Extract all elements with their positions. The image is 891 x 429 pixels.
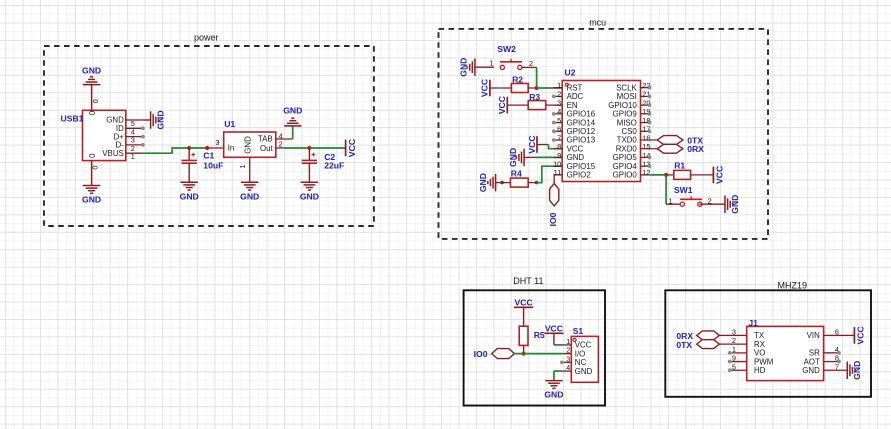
- pin dot: [648, 95, 652, 99]
- svg-text:R1: R1: [674, 161, 685, 171]
- svg-text:RST: RST: [567, 83, 583, 92]
- svg-text:VCC: VCC: [545, 324, 563, 334]
- svg-text:mcu: mcu: [589, 17, 606, 27]
- svg-text:VIN: VIN: [807, 331, 820, 340]
- svg-text:GND: GND: [544, 389, 563, 399]
- wire: [528, 87, 536, 89]
- svg-text:IO0: IO0: [474, 349, 488, 359]
- ground: [725, 195, 740, 214]
- pin number 0: [90, 166, 99, 170]
- pin dot: [648, 129, 652, 133]
- svg-text:IO0: IO0: [548, 212, 558, 226]
- section label MHZ19: [778, 280, 808, 290]
- wire: [91, 161, 93, 186]
- value 10uF: [203, 160, 223, 170]
- svg-text:R5: R5: [534, 330, 545, 340]
- svg-text:9: 9: [557, 151, 561, 160]
- svg-text:R2: R2: [512, 75, 523, 85]
- pin dot D-: [141, 143, 145, 147]
- section box mcu: [439, 29, 769, 239]
- section label power: [194, 32, 219, 42]
- capacitor C2: [300, 148, 319, 201]
- wire: [514, 353, 523, 355]
- wire: [554, 370, 563, 372]
- svg-text:GND: GND: [567, 153, 585, 162]
- svg-text:DHT 11: DHT 11: [513, 276, 543, 286]
- connector J1: [719, 326, 854, 380]
- svg-text:VCC: VCC: [715, 166, 725, 184]
- svg-text:VCC: VCC: [515, 298, 533, 308]
- svg-text:U1: U1: [224, 119, 235, 129]
- resistor R2: [511, 84, 528, 93]
- pin number 1: [669, 197, 673, 206]
- power flag VCC: [346, 139, 357, 157]
- wire: [292, 126, 294, 139]
- wire: [91, 85, 93, 111]
- wire: [284, 147, 310, 149]
- power flag VCC: [854, 326, 865, 344]
- svg-text:1: 1: [566, 337, 570, 346]
- pin number 3: [215, 138, 219, 147]
- svg-text:11: 11: [554, 168, 562, 177]
- svg-text:10uF: 10uF: [203, 160, 223, 170]
- net flag 0TX: [697, 340, 720, 349]
- svg-text:TXD0: TXD0: [617, 136, 638, 145]
- pin number 0: [91, 99, 100, 103]
- net flag IO0: [550, 184, 559, 206]
- wire: [536, 67, 538, 88]
- ground: [283, 106, 302, 126]
- svg-text:MHZ19: MHZ19: [778, 280, 808, 290]
- svg-text:GPIO16: GPIO16: [567, 110, 596, 119]
- wire: [665, 175, 667, 204]
- label C2: [324, 152, 335, 162]
- svg-text:GND: GND: [156, 110, 166, 129]
- wire: [490, 87, 512, 89]
- svg-text:GPIO5: GPIO5: [613, 153, 638, 162]
- svg-text:RX: RX: [754, 340, 766, 349]
- svg-text:8: 8: [557, 142, 561, 151]
- svg-text:In: In: [228, 144, 235, 153]
- ground: [478, 173, 496, 192]
- svg-text:AOT: AOT: [804, 357, 820, 366]
- pin dot: [552, 112, 556, 116]
- wire: [553, 371, 555, 381]
- pin dot: [648, 86, 652, 90]
- svg-text:VBUS: VBUS: [102, 149, 124, 158]
- svg-text:GND: GND: [575, 367, 593, 376]
- svg-text:SCLK: SCLK: [616, 83, 637, 92]
- svg-text:GND: GND: [244, 136, 253, 154]
- wire: [699, 203, 725, 205]
- svg-text:5: 5: [557, 116, 561, 125]
- svg-text:VCC: VCC: [567, 144, 584, 153]
- pin number 2: [279, 140, 283, 149]
- svg-text:5: 5: [732, 362, 736, 371]
- wire: [535, 156, 562, 158]
- pin number 1: [490, 59, 494, 68]
- pin dot: [552, 95, 556, 99]
- svg-text:0: 0: [90, 166, 99, 170]
- svg-text:RXD0: RXD0: [616, 144, 638, 153]
- pin dot SR: [837, 351, 841, 355]
- wire: [309, 147, 345, 149]
- pin dot D+: [141, 135, 145, 139]
- svg-text:6: 6: [557, 125, 561, 134]
- svg-text:USB1: USB1: [61, 114, 84, 124]
- svg-text:3: 3: [215, 138, 219, 147]
- svg-text:GND: GND: [82, 195, 101, 205]
- svg-text:R4: R4: [511, 169, 522, 179]
- svg-text:VCC: VCC: [480, 79, 490, 97]
- svg-text:10: 10: [553, 159, 561, 168]
- net flag 0TX: [657, 136, 683, 145]
- switch SW1: [680, 196, 702, 206]
- section box DHT11: [464, 290, 605, 405]
- wire: [537, 87, 562, 89]
- svg-text:GND: GND: [508, 148, 518, 167]
- svg-text:SR: SR: [809, 349, 820, 358]
- label S1: [573, 326, 584, 336]
- net label 0TX: [687, 135, 703, 145]
- svg-text:3: 3: [566, 354, 570, 363]
- net label IO0: [548, 212, 558, 226]
- svg-text:C1: C1: [203, 150, 214, 160]
- ground: [151, 110, 166, 129]
- wire: [522, 66, 537, 68]
- label R5: [534, 330, 545, 340]
- section box power: [44, 46, 374, 226]
- svg-text:0: 0: [88, 153, 97, 158]
- svg-text:7: 7: [835, 362, 839, 371]
- wire: [528, 182, 536, 184]
- pin dot: [648, 112, 652, 116]
- svg-text:GPIO12: GPIO12: [567, 127, 596, 136]
- pin dot: [552, 138, 556, 142]
- svg-text:2: 2: [557, 90, 561, 99]
- ground: [82, 65, 101, 84]
- svg-text:9: 9: [732, 354, 736, 363]
- ground: [458, 58, 475, 77]
- svg-text:1: 1: [238, 164, 247, 168]
- label USB1: [61, 114, 84, 124]
- svg-text:J1: J1: [748, 318, 758, 328]
- svg-text:2: 2: [566, 346, 570, 355]
- pin dot: [648, 121, 652, 125]
- label C1: [203, 150, 214, 160]
- label R3: [529, 92, 540, 102]
- svg-text:1: 1: [490, 59, 494, 68]
- section label mcu: [589, 17, 606, 27]
- resistor R5: [519, 326, 528, 345]
- svg-text:GND: GND: [300, 191, 319, 201]
- svg-text:VO: VO: [754, 349, 765, 358]
- mcu U2: [553, 81, 657, 182]
- resistor R1: [674, 170, 691, 179]
- svg-text:GND: GND: [730, 195, 740, 214]
- pin number 2: [708, 197, 712, 206]
- svg-text:GND: GND: [82, 65, 101, 75]
- resistor R4: [511, 178, 529, 187]
- power flag VCC: [713, 166, 724, 184]
- regulator U1: [224, 132, 276, 182]
- wire: [691, 174, 714, 176]
- wire: [537, 144, 549, 146]
- svg-text:HD: HD: [754, 366, 766, 375]
- pin dot NC: [560, 360, 564, 364]
- ground: [508, 148, 524, 167]
- svg-text:3: 3: [732, 327, 736, 336]
- power flag VCC: [514, 298, 533, 308]
- junction: [522, 352, 526, 356]
- svg-text:GPIO4: GPIO4: [613, 162, 638, 171]
- svg-text:GPIO10: GPIO10: [608, 101, 637, 110]
- pin dot: [552, 121, 556, 125]
- svg-text:4: 4: [557, 107, 561, 116]
- svg-text:GPIO9: GPIO9: [613, 110, 638, 119]
- wire: [537, 166, 563, 182]
- wire: [189, 147, 207, 149]
- ground: [847, 361, 862, 380]
- wire: [553, 333, 555, 345]
- svg-text:GND: GND: [180, 191, 199, 201]
- svg-text:MOSI: MOSI: [617, 92, 637, 101]
- svg-text:TX: TX: [754, 331, 765, 340]
- net flag 0RX: [657, 144, 683, 153]
- svg-text:Out: Out: [260, 144, 274, 153]
- wire: [546, 104, 562, 106]
- power flag VCC: [480, 79, 490, 97]
- svg-text:GND: GND: [240, 191, 259, 201]
- wire: [502, 182, 510, 184]
- power flag VCC: [497, 96, 507, 114]
- svg-text:MISO: MISO: [617, 118, 637, 127]
- svg-text:GND: GND: [802, 366, 820, 375]
- resistor R3: [528, 101, 546, 110]
- svg-text:S1: S1: [573, 326, 584, 336]
- label R4: [511, 169, 522, 179]
- wire: [143, 119, 151, 121]
- wire: [143, 148, 189, 153]
- junction: [187, 146, 191, 150]
- junction: [535, 86, 539, 90]
- svg-text:GND: GND: [283, 106, 302, 116]
- power flag VCC: [544, 324, 563, 334]
- svg-text:VCC: VCC: [527, 135, 537, 153]
- svg-text:VCC: VCC: [856, 326, 866, 344]
- pin dot: [648, 156, 652, 160]
- pin number 4: [279, 131, 283, 140]
- svg-text:EN: EN: [567, 101, 578, 110]
- net flag IO0: [492, 349, 515, 359]
- svg-text:GPIO14: GPIO14: [567, 118, 596, 127]
- junction: [307, 146, 311, 150]
- net label 0RX: [687, 144, 704, 154]
- pin dot: [648, 164, 652, 168]
- capacitor C1: [180, 148, 199, 201]
- wire: [507, 104, 528, 106]
- svg-text:GPIO2: GPIO2: [567, 171, 591, 180]
- label U1: [224, 119, 235, 129]
- svg-text:TAB: TAB: [258, 135, 273, 144]
- label U2: [565, 68, 576, 78]
- svg-text:VCC: VCC: [575, 341, 592, 350]
- svg-text:3: 3: [557, 98, 561, 107]
- svg-text:VCC: VCC: [347, 139, 357, 157]
- wire: [554, 344, 563, 346]
- value 22uF: [324, 161, 344, 171]
- pin dot: [648, 103, 652, 107]
- pin number 2: [529, 59, 533, 68]
- wire: [276, 138, 293, 140]
- svg-text:I/O: I/O: [575, 349, 586, 358]
- wire: [524, 156, 535, 158]
- svg-text:1: 1: [131, 152, 135, 161]
- section label DHT11: [513, 276, 543, 286]
- USB connector USB1: [83, 110, 143, 161]
- ground: [544, 381, 563, 400]
- svg-text:GPIO13: GPIO13: [567, 136, 596, 145]
- junction: [500, 181, 504, 185]
- wire: [666, 174, 674, 176]
- svg-text:0: 0: [88, 110, 97, 115]
- svg-text:ADC: ADC: [567, 92, 584, 101]
- pin dot: [552, 129, 556, 133]
- net flag 0RX: [697, 331, 720, 340]
- label J1: [748, 318, 758, 328]
- wire: [523, 307, 525, 326]
- wire: [554, 175, 562, 184]
- svg-text:R3: R3: [529, 92, 540, 102]
- svg-text:1: 1: [732, 345, 736, 354]
- svg-text:6: 6: [835, 327, 839, 336]
- svg-text:16: 16: [642, 133, 650, 142]
- svg-text:VCC: VCC: [497, 96, 507, 114]
- svg-text:22uF: 22uF: [324, 161, 344, 171]
- svg-text:GPIO15: GPIO15: [567, 162, 596, 171]
- svg-text:GPIO0: GPIO0: [613, 171, 638, 180]
- svg-text:0: 0: [91, 99, 100, 103]
- svg-text:4: 4: [566, 363, 570, 372]
- power flag VCC: [527, 135, 537, 153]
- svg-text:15: 15: [642, 142, 650, 151]
- wire: [649, 174, 666, 176]
- svg-text:2: 2: [732, 336, 736, 345]
- svg-text:7: 7: [557, 133, 561, 142]
- net label IO0: [474, 349, 488, 359]
- pin dot ID: [141, 126, 145, 130]
- section box MHZ19: [665, 290, 871, 397]
- wire: [549, 145, 563, 149]
- pin dot VO: [728, 351, 732, 355]
- svg-text:U2: U2: [565, 68, 576, 78]
- net label 0RX: [676, 331, 693, 341]
- wire: [475, 66, 494, 68]
- svg-text:GND: GND: [478, 173, 488, 192]
- wire: [666, 203, 683, 205]
- pin dot AOT: [837, 360, 841, 364]
- svg-text:SW2: SW2: [497, 44, 516, 54]
- label SW2: [497, 44, 516, 54]
- net label 0TX: [676, 340, 692, 350]
- junction: [535, 181, 539, 185]
- svg-text:SW1: SW1: [674, 185, 693, 195]
- sensor S1: [563, 336, 599, 382]
- svg-text:GND: GND: [852, 361, 862, 380]
- ground: [82, 186, 101, 205]
- svg-text:0RX: 0RX: [687, 144, 704, 154]
- svg-text:GND: GND: [458, 58, 468, 77]
- pin dot PWM: [728, 360, 732, 364]
- pin number 1: [238, 164, 247, 168]
- wire: [496, 182, 503, 184]
- svg-text:power: power: [194, 32, 219, 42]
- svg-text:1: 1: [557, 81, 561, 90]
- wire: [276, 147, 284, 149]
- svg-text:CS0: CS0: [621, 127, 637, 136]
- svg-text:2: 2: [279, 140, 283, 149]
- label SW1: [674, 185, 693, 195]
- label R1: [674, 161, 685, 171]
- svg-text:0TX: 0TX: [676, 340, 692, 350]
- svg-text:PWM: PWM: [754, 357, 773, 366]
- pin dot HD: [728, 368, 732, 372]
- svg-text:NC: NC: [575, 358, 587, 367]
- wire: [523, 345, 525, 353]
- wire: [524, 353, 563, 355]
- label R2: [512, 75, 523, 85]
- switch SW2: [500, 59, 522, 70]
- svg-text:12: 12: [642, 168, 650, 177]
- junction: [664, 173, 668, 177]
- wire: [207, 147, 224, 149]
- junction: [205, 146, 209, 150]
- ground: [240, 182, 259, 201]
- svg-text:1: 1: [669, 197, 673, 206]
